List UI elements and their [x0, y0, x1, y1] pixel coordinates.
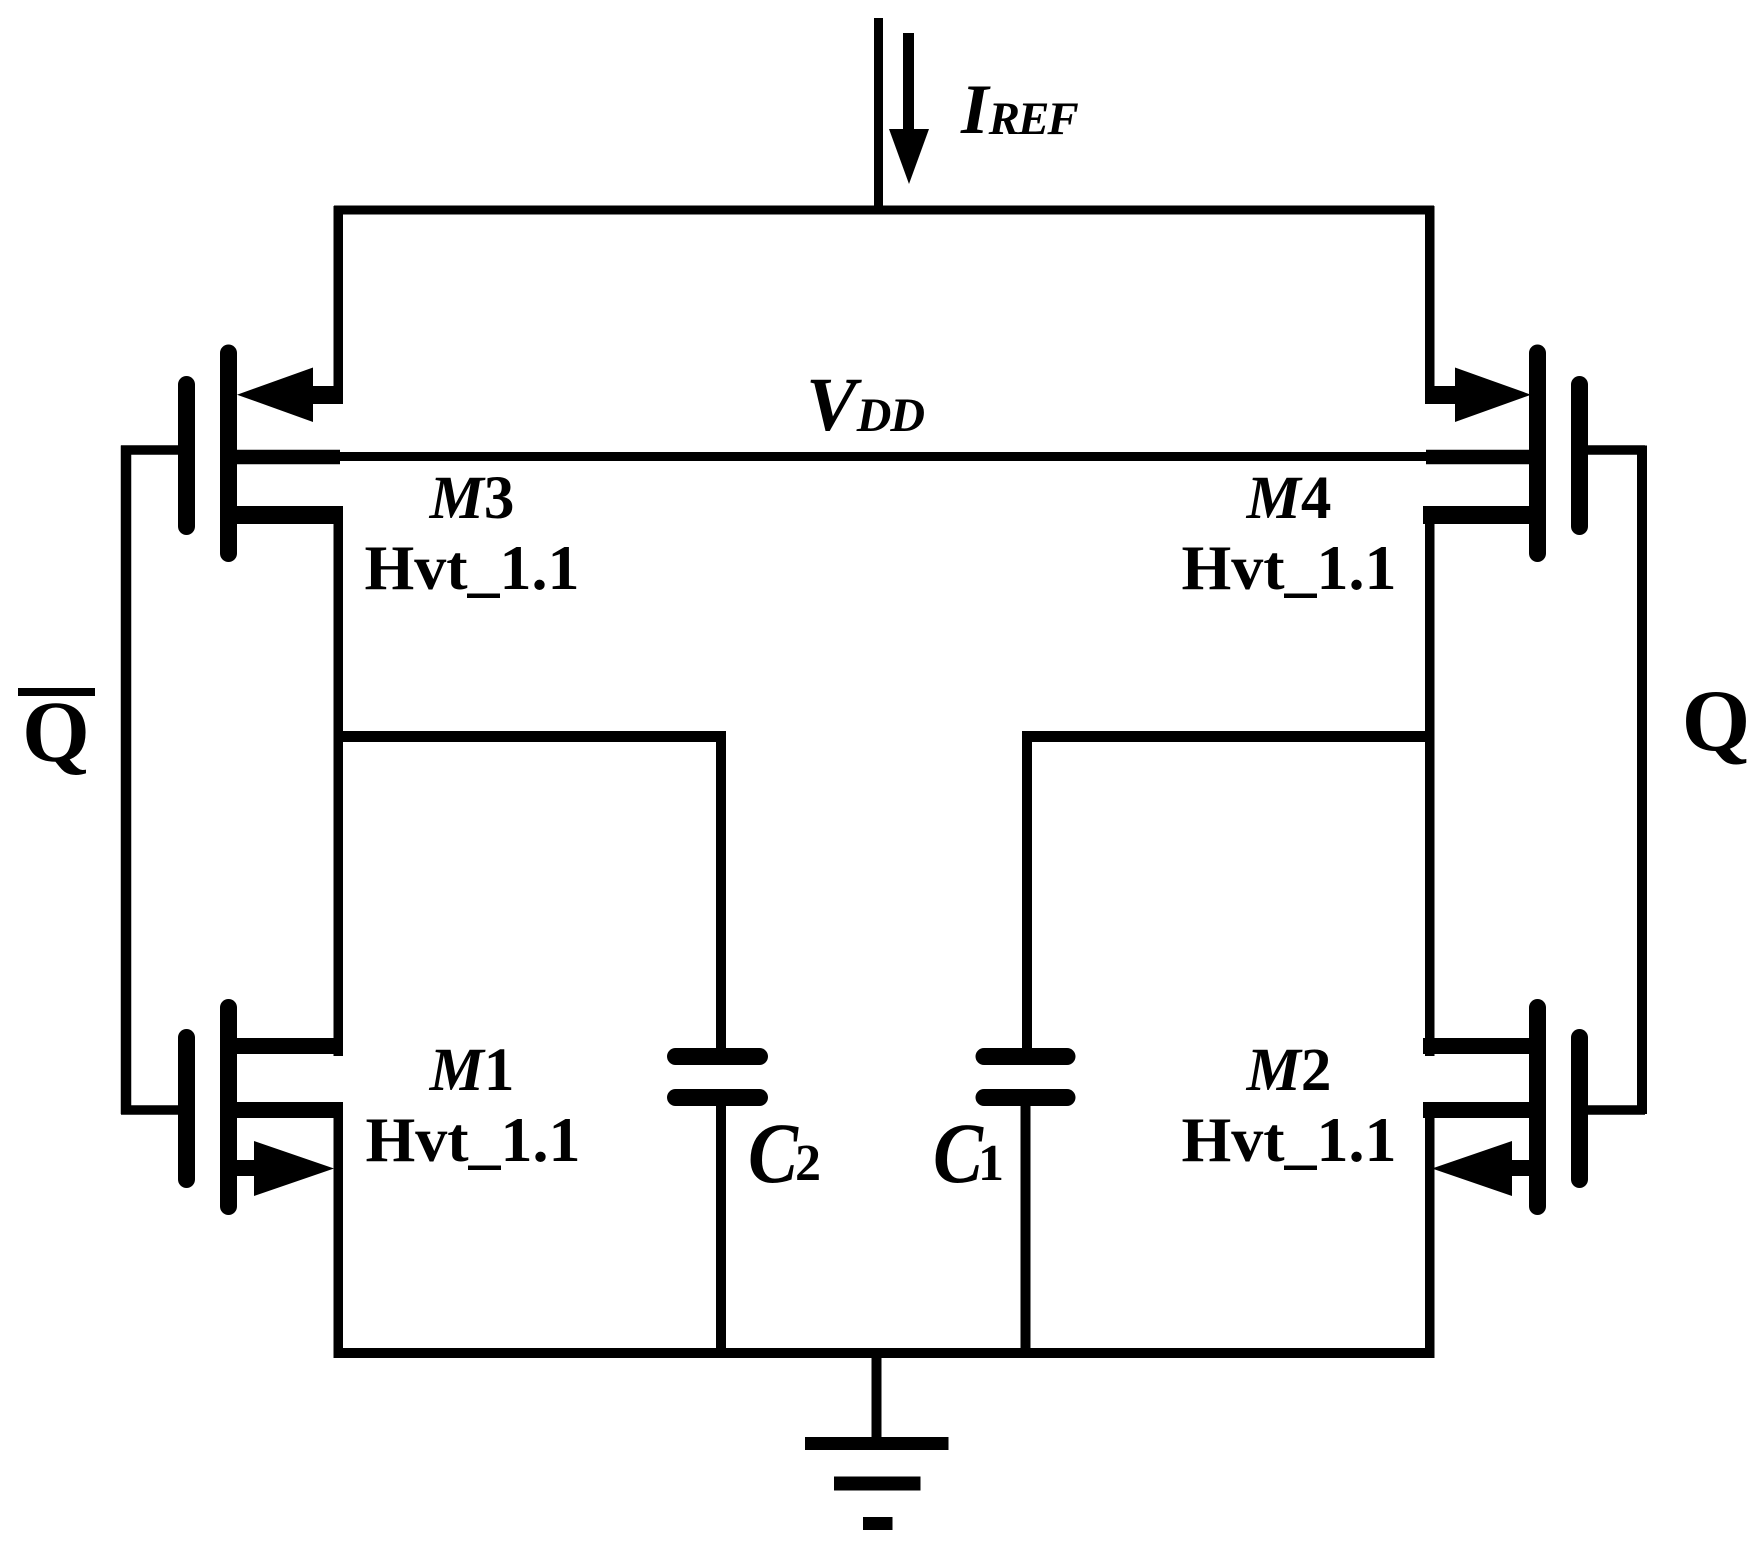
wire top-rail to M3 source	[334, 206, 344, 404]
transistor M2	[1423, 1008, 1645, 1207]
C2 bottom plate	[676, 1089, 760, 1106]
IREF arrow head	[889, 129, 929, 184]
C1 bottom plate	[984, 1089, 1067, 1106]
M4 gate wire	[1579, 445, 1645, 455]
wire M1 source to ground rail	[334, 1110, 344, 1353]
wire IREF input	[874, 18, 883, 212]
wire Q gate line	[1637, 446, 1647, 1115]
M2 channel bar	[1529, 1008, 1546, 1207]
M2 gate bar	[1571, 1038, 1588, 1180]
transistor M1	[121, 1008, 343, 1207]
label Qbar	[18, 683, 95, 780]
node VDD rail between M3 and M4	[339, 452, 1429, 461]
M1 source stub	[237, 1102, 343, 1118]
transistor M3 source arrow	[237, 368, 343, 423]
M1 drain stub	[237, 1038, 343, 1054]
svg-text:M2: M2	[1246, 1037, 1332, 1104]
M1 channel bar	[220, 1008, 237, 1207]
M4 source stub to VDD	[1426, 450, 1529, 465]
svg-text:Q: Q	[1682, 673, 1750, 770]
svg-text:Hvt_1.1: Hvt_1.1	[1181, 532, 1396, 603]
wire M4 drain to M2 drain	[1425, 506, 1435, 1056]
wire left drain node to C2	[334, 731, 722, 742]
capacitor C1	[984, 1057, 1067, 1098]
M1 gate bar	[178, 1038, 195, 1180]
M4 drain stub	[1423, 506, 1529, 524]
svg-text:Hvt_1.1: Hvt_1.1	[364, 532, 579, 603]
svg-text:Hvt_1.1: Hvt_1.1	[365, 1104, 580, 1175]
M2 source stub	[1423, 1102, 1529, 1118]
wire top-rail to M4 source	[1425, 206, 1435, 404]
ground bar 2	[834, 1477, 921, 1491]
svg-text:M1: M1	[429, 1037, 515, 1104]
svg-text:M3: M3	[429, 465, 515, 532]
M2 drain stub	[1423, 1038, 1529, 1054]
wire Qbar gate line	[121, 446, 132, 1115]
ground stem wire	[872, 1353, 882, 1441]
node VDD top rail	[334, 206, 1434, 215]
svg-text:Hvt_1.1: Hvt_1.1	[1181, 1104, 1396, 1175]
transistor M4 source arrow	[1425, 368, 1531, 423]
wire M2 source to ground rail	[1425, 1110, 1435, 1353]
M3 gate bar	[178, 385, 195, 527]
M4 channel bar	[1529, 353, 1546, 554]
M2 gate wire	[1579, 1105, 1645, 1115]
transistor M4	[1423, 353, 1645, 554]
M3 drain stub	[237, 506, 343, 524]
M3 source stub to VDD	[237, 450, 340, 465]
ground	[805, 1353, 949, 1524]
wire C2 to ground rail	[716, 1106, 726, 1353]
transistor M1 source arrow	[236, 1141, 334, 1196]
transistor M3	[121, 353, 343, 554]
ground bar 1	[805, 1437, 949, 1450]
M3 channel bar	[220, 353, 237, 554]
capacitor C2	[676, 1057, 760, 1098]
M4 gate bar	[1571, 385, 1588, 527]
IREF current arrow	[889, 33, 929, 184]
wire C1 to ground rail	[1021, 1106, 1031, 1353]
C1 top plate	[984, 1048, 1067, 1065]
svg-text:Q: Q	[22, 683, 90, 780]
M1 gate wire	[121, 1105, 187, 1115]
wire right drain node to C1	[1027, 731, 1435, 742]
svg-text:M4: M4	[1246, 465, 1332, 532]
node ground rail	[334, 1348, 1435, 1358]
M3 gate wire	[121, 445, 187, 455]
ground bar 3	[863, 1517, 893, 1530]
transistor M2 source arrow	[1432, 1141, 1530, 1196]
wire M3 drain to M1 drain	[334, 506, 344, 1056]
C2 top plate	[676, 1048, 760, 1065]
IREF arrow shaft	[903, 33, 914, 131]
